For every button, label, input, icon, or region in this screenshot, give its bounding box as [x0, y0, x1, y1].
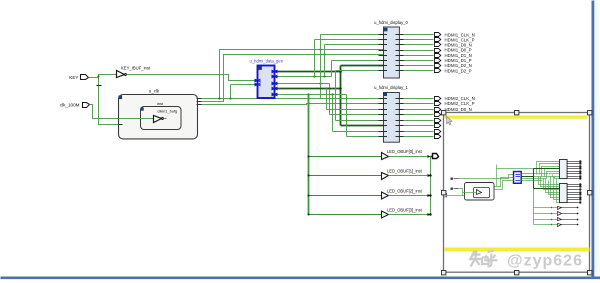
svg-text:LED_OBUF[3]_inst: LED_OBUF[3]_inst [387, 207, 423, 212]
svg-text:LED_OBUF[2]_inst: LED_OBUF[2]_inst [387, 188, 423, 193]
mini block u_clk [465, 183, 495, 201]
mini output comb display_1 [568, 184, 582, 204]
block u_hdmi_display_1 [374, 85, 408, 142]
buffer LED_OBUF[0]_inst [307, 149, 430, 160]
wire net vsync [278, 40, 384, 78]
mini buffer LED_OBUF[0] [534, 207, 579, 210]
buffer LED_OBUF[2]_inst [307, 188, 430, 199]
svg-text:LED_OBUF[0]_inst: LED_OBUF[0]_inst [387, 149, 423, 154]
wire clk5x net to display_0 pin5 [202, 53, 384, 101]
highlighted net (yellow) bottom [445, 248, 590, 252]
data_gen right pin markers [272, 70, 278, 97]
wires display_0 outputs to ports [404, 35, 434, 71]
mini output comb display_0 [568, 161, 582, 180]
svg-text:u_hdmi_data_gen: u_hdmi_data_gen [250, 59, 284, 64]
svg-text:inst: inst [157, 101, 164, 106]
svg-text:LED_OBUF[1]_inst: LED_OBUF[1]_inst [387, 169, 423, 174]
buffer LED_OBUF[1]_inst [307, 169, 430, 180]
wire net led feeder [308, 95, 310, 215]
panel body [444, 113, 590, 273]
mini wires u_clk to data_gen [495, 165, 535, 190]
watermark zhihu @zyp626 [470, 251, 583, 270]
mini wire staircase to display_0 [537, 162, 560, 179]
mini wire inputs to u_clk [459, 175, 514, 196]
output port LED [431, 154, 439, 159]
svg-text:u_hdmi_display_1: u_hdmi_display_1 [374, 85, 408, 90]
highlighted net (yellow) top [445, 116, 588, 119]
svg-text:HDMI2_D0_N: HDMI2_D0_N [445, 107, 472, 112]
wire KEY branch down to u_clk reset [97, 78, 119, 125]
mini bus wire [522, 169, 560, 189]
svg-text:HDMI2_CLK_P: HDMI2_CLK_P [445, 101, 475, 106]
mini block u_hdmi_display_0 [560, 160, 568, 179]
mouse cursor [447, 116, 452, 125]
mini block u_hdmi_display_1 [560, 184, 568, 203]
wire net data5 [278, 93, 384, 136]
wire clkin inside u_clk [119, 119, 154, 125]
wire pixclk net long to display_1 pin2 [202, 102, 384, 104]
mini wire staircase to display_1 [539, 177, 560, 203]
svg-text:clkin1_bufg: clkin1_bufg [158, 109, 178, 114]
display_0 pin stubs [379, 35, 404, 71]
svg-text:clk_100M: clk_100M [60, 103, 80, 108]
svg-text:@zyp626: @zyp626 [507, 253, 583, 270]
bus net data (dark) [278, 66, 384, 126]
data_gen left pin markers [255, 79, 261, 87]
svg-text:KEY: KEY [69, 75, 78, 80]
block u_hdmi_display_0 [374, 20, 408, 78]
pale strip right of border [595, 0, 598, 277]
input port clk_100M [60, 103, 90, 108]
buffer LED_OBUF[3]_inst [307, 207, 430, 218]
mini input port 2 [451, 188, 459, 190]
block u_hdmi_data_gen [250, 59, 284, 98]
sheet border bottom (blue) [1, 277, 600, 280]
output ports HDMI2 [435, 96, 475, 138]
SECTION: selection handles [442, 111, 592, 275]
u_clk right pin stubs [197, 99, 202, 105]
wire clk net to display_0 pin4 [202, 48, 384, 99]
wire net hsync [278, 35, 384, 115]
display_1 pin stubs [379, 99, 404, 137]
output ports HDMI1 [435, 32, 475, 73]
mini wire led vertical [533, 189, 535, 225]
mini buffer LED_OBUF[3] [534, 224, 579, 227]
wire net de [278, 71, 384, 121]
svg-text:u_hdmi_display_0: u_hdmi_display_0 [374, 20, 408, 25]
mini block u_hdmi_data_gen [514, 172, 522, 184]
mini buffer LED_OBUF[1] [534, 212, 579, 216]
wire KEY pin to IBUF [89, 75, 117, 78]
svg-text:u_clk: u_clk [149, 88, 160, 93]
svg-text:HDMI1_D2_P: HDMI1_D2_P [445, 68, 472, 73]
sheet border right (blue) [592, 1, 595, 279]
mini wires data_gen outputs [522, 174, 553, 181]
mini port at panel edge [444, 194, 465, 197]
buffer clkin1_bufg [154, 109, 178, 123]
wire KEY_IBUF output to u_hdmi_data_gen pin1 [127, 75, 257, 81]
wire clk_100M to u_clk clkin [90, 105, 153, 119]
block inst (inside u_clk) [141, 101, 182, 129]
svg-text:KEY_IBUF_inst: KEY_IBUF_inst [121, 66, 151, 71]
block u_clk [119, 88, 198, 138]
wires display_1 outputs to ports [404, 99, 434, 137]
mini input port 1 [451, 178, 459, 180]
wire LED vertical collector [429, 157, 431, 216]
input port KEY [69, 75, 88, 80]
mini buffer LED_OBUF[2] [534, 218, 579, 221]
buffer KEY_IBUF_inst [117, 66, 151, 78]
wire clk branch into data_gen pin2 [231, 85, 257, 99]
